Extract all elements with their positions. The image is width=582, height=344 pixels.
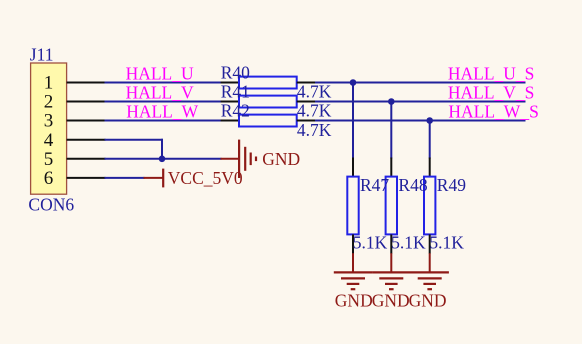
svg-text:4: 4 — [44, 130, 54, 151]
svg-text:5.1K: 5.1K — [353, 232, 388, 252]
svg-text:R42: R42 — [221, 100, 250, 120]
svg-text:4.7K: 4.7K — [297, 82, 332, 102]
svg-text:R40: R40 — [221, 62, 250, 82]
svg-text:2: 2 — [44, 92, 54, 113]
svg-text:HALL_U_S: HALL_U_S — [448, 63, 535, 83]
resistor R41 right pin — [297, 101, 316, 103]
junction node HALL_U_S / R47 — [350, 79, 357, 86]
resistor R41 left pin — [221, 101, 240, 103]
resistor R48 body — [386, 177, 397, 235]
pin 1 lead — [67, 82, 106, 84]
svg-text:3: 3 — [44, 111, 54, 132]
wire pin4 horizontal — [105, 139, 164, 141]
svg-text:HALL_U: HALL_U — [126, 63, 194, 83]
svg-text:6: 6 — [44, 168, 54, 189]
svg-text:4.7K: 4.7K — [297, 101, 332, 121]
svg-text:HALL_V: HALL_V — [126, 82, 194, 102]
resistor R48 bottom pin — [390, 234, 392, 253]
ground symbol bars under R47 — [334, 272, 372, 289]
resistor R49 body — [424, 177, 435, 235]
ground symbol bars at pin5 (rotated) — [239, 140, 256, 178]
svg-text:R41: R41 — [221, 81, 250, 101]
pin 4 lead — [67, 139, 106, 141]
power symbol VCC_5V0 bar — [162, 169, 164, 188]
pin 6 lead — [67, 177, 106, 179]
svg-text:VCC_5V0: VCC_5V0 — [168, 168, 243, 188]
svg-text:GND: GND — [335, 290, 373, 310]
junction node HALL_V_S / R48 — [388, 98, 395, 105]
resistor R42 body — [239, 115, 297, 127]
wire drop to R49 — [429, 121, 431, 159]
resistor R47 body — [347, 177, 358, 235]
resistor R47 top pin — [352, 158, 354, 178]
svg-text:4.7K: 4.7K — [297, 120, 332, 140]
resistor R42 right pin — [297, 120, 316, 122]
resistor R42 left pin — [221, 120, 240, 122]
junction node HALL_W_S / R49 — [426, 117, 433, 124]
wire drop to R47 — [352, 83, 354, 159]
resistor R40 right pin — [297, 82, 316, 84]
connector J11 body — [31, 63, 67, 194]
resistor R49 bottom pin — [429, 234, 431, 253]
resistor R40 body — [239, 77, 297, 89]
ground symbol lead under R47 — [352, 253, 354, 272]
ground symbol bars under R48 — [372, 272, 410, 289]
svg-text:GND: GND — [409, 290, 447, 310]
resistor R49 top pin — [429, 158, 431, 178]
svg-text:CON6: CON6 — [28, 195, 74, 215]
svg-text:R48: R48 — [398, 175, 427, 195]
ground symbol lead at pin5 — [221, 158, 240, 160]
wire pin5 to GND lead — [105, 158, 222, 160]
wire HALL_U from pin1 to R40 — [105, 82, 222, 84]
svg-text:R49: R49 — [437, 175, 466, 195]
wire HALL_V from pin2 to R41 — [105, 101, 222, 103]
resistor R41 body — [239, 96, 297, 108]
pin 3 lead — [67, 120, 106, 122]
svg-text:GND: GND — [372, 290, 410, 310]
wire HALL_V_S from R41 to label — [315, 101, 526, 103]
svg-text:R47: R47 — [360, 175, 389, 195]
wire drop to R48 — [390, 102, 392, 159]
svg-text:5.1K: 5.1K — [391, 232, 426, 252]
wire HALL_W_S from R42 to label — [315, 120, 526, 122]
power symbol VCC_5V0 lead — [144, 177, 164, 179]
svg-text:1: 1 — [44, 73, 54, 94]
junction node pin4/pin5 — [159, 156, 166, 163]
pin 5 lead — [67, 158, 106, 160]
resistor R48 top pin — [390, 158, 392, 178]
wire pin4 vertical drop to pin5 net — [161, 139, 163, 159]
svg-text:HALL_W_S: HALL_W_S — [448, 101, 538, 121]
ground symbol bars under R49 — [411, 272, 449, 289]
svg-text:HALL_V_S: HALL_V_S — [448, 82, 535, 102]
svg-text:5: 5 — [44, 149, 54, 170]
ground symbol lead under R49 — [429, 253, 431, 272]
ground symbol lead under R48 — [390, 253, 392, 272]
pin 2 lead — [67, 101, 106, 103]
svg-text:5.1K: 5.1K — [429, 232, 464, 252]
svg-text:HALL_W: HALL_W — [126, 101, 198, 121]
resistor R47 bottom pin — [352, 234, 354, 253]
resistor R40 left pin — [221, 82, 240, 84]
svg-text:GND: GND — [262, 149, 300, 169]
wire pin6 to VCC lead — [105, 177, 145, 179]
svg-text:J11: J11 — [30, 45, 54, 65]
wire HALL_W from pin3 to R42 — [105, 120, 222, 122]
wire HALL_U_S from R40 to label — [315, 82, 526, 84]
